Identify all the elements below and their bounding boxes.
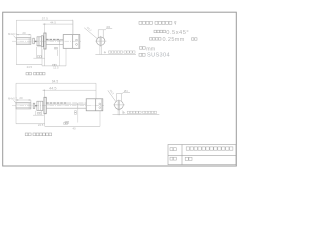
- nut arrow cluster (view1): [35, 41, 37, 42]
- flange disc (view1): [44, 33, 46, 49]
- tech note line 3: radius 0.25mm: [150, 38, 162, 41]
- svg-text:20: 20: [22, 31, 26, 35]
- dia-4 extension lines (view1 end view): [98, 28, 112, 37]
- caption view1: [26, 72, 45, 75]
- flange extension down (view1): [44, 49, 46, 66]
- threaded shaft section (view1): [16, 38, 31, 45]
- lower dim extension lines (view1): [16, 44, 66, 66]
- block extension to dim (view1): [72, 20, 74, 35]
- label cell 2 (designer): [170, 157, 176, 160]
- tech note line 1: [139, 21, 172, 24]
- svg-text:Ø4: Ø4: [107, 25, 111, 29]
- dia-4 extension lines (view2 end view): [116, 92, 130, 101]
- flange extension down (view2): [44, 114, 46, 127]
- centerline (view2 shaft axis): [12, 105, 104, 107]
- dimension 20 thread length (view2): [16, 99, 31, 102]
- svg-text:24.5: 24.5: [27, 65, 33, 69]
- note with underline (view2): [123, 112, 125, 114]
- svg-text:SUS304: SUS304: [147, 53, 170, 59]
- svg-text:M4x0.7: M4x0.7: [8, 97, 17, 101]
- flange extension up (view2): [44, 90, 46, 97]
- underline (view2 note): [113, 114, 160, 116]
- svg-text:57.5: 57.5: [42, 17, 48, 21]
- crosshair (view1 end view): [95, 40, 106, 42]
- svg-text:0.25mm: 0.25mm: [163, 37, 185, 43]
- leader under shaft (view2): [65, 122, 69, 124]
- shaft mid section (view2): [46, 103, 86, 108]
- svg-text:M4x0.7: M4x0.7: [8, 32, 17, 36]
- svg-text:64.5: 64.5: [52, 80, 58, 84]
- caption view2: [25, 133, 52, 136]
- tech note line 4: unit mm: [140, 47, 146, 50]
- end block (view1): [63, 35, 80, 49]
- end block (view2): [86, 99, 103, 111]
- end-view circle (view1): [97, 37, 105, 45]
- tick below circle (view2 end view): [122, 111, 125, 114]
- svg-text:24.5: 24.5: [38, 123, 44, 127]
- flange extension up (view1): [44, 24, 46, 33]
- dimension 24.5 lower-left (view1): [16, 64, 42, 66]
- dimension 44.5 (view1 second stack): [43, 23, 73, 24]
- svg-text:44.5: 44.5: [49, 87, 56, 91]
- dimension 12.5 lower-right (view1): [42, 65, 66, 67]
- svg-text:20: 20: [19, 96, 23, 100]
- dimension 57.5 overall (view1): [16, 20, 73, 37]
- dimension 64.5 overall (view2): [16, 83, 96, 102]
- flange disc (view2): [44, 97, 46, 113]
- svg-text:mm: mm: [146, 46, 155, 52]
- dimension 44.5 (view2 second stack): [43, 90, 97, 91]
- svg-text:Ø4: Ø4: [124, 89, 128, 93]
- leader line (view1): [14, 36, 17, 39]
- leader under shaft (view1): [54, 48, 57, 50]
- threaded shaft section (view2): [16, 103, 31, 109]
- set screw glyphs (view1): [76, 39, 78, 41]
- shaft mid section (view1): [46, 39, 63, 66]
- chamfer leader (view2 end view): [108, 90, 116, 101]
- dimension lower-left (view2): [16, 123, 45, 125]
- end-view circle (view2): [115, 101, 124, 110]
- centerline (view1 shaft axis): [12, 40, 81, 42]
- sheet border frame: [3, 12, 237, 166]
- svg-text:0.5x45°: 0.5x45°: [166, 30, 189, 36]
- small drop dimension under collar (view1): [37, 46, 42, 48]
- extension below circle (view2 end view): [117, 101, 119, 116]
- nut arrow cluster (view2): [35, 105, 37, 106]
- chamfer leader (view1 end view): [84, 28, 97, 39]
- ring 2 (view1): [41, 36, 43, 47]
- svg-text:44.5: 44.5: [50, 20, 56, 24]
- collar block (view1): [37, 37, 41, 46]
- washer ring (view1): [33, 38, 35, 44]
- collar block (view2): [37, 101, 43, 110]
- tech note line 5: material SUS304: [139, 53, 145, 56]
- washer ring (view2): [33, 103, 35, 108]
- title block table: [168, 145, 236, 165]
- leader line (view2): [14, 100, 17, 103]
- tech note line 2: chamfer 0.5x45: [154, 30, 166, 33]
- crosshair (view2 end view): [113, 104, 125, 106]
- svg-text:12.5: 12.5: [53, 66, 59, 70]
- dimension 20 thread length (view1): [16, 34, 31, 37]
- lower dim extension lines (view2): [16, 109, 100, 126]
- dimension lower-right (view2): [45, 125, 100, 127]
- label cell 1 (unit): [170, 148, 176, 151]
- small drop dimension under collar (view2): [33, 111, 44, 115]
- extension below circle (view1 end view): [99, 37, 101, 55]
- svg-text:40: 40: [72, 126, 76, 130]
- company name text: [186, 147, 233, 150]
- underline (view1 note): [95, 54, 136, 56]
- set screw glyphs (view2): [99, 103, 101, 105]
- designer name text: [185, 157, 192, 160]
- note with underline (view1): [104, 51, 106, 53]
